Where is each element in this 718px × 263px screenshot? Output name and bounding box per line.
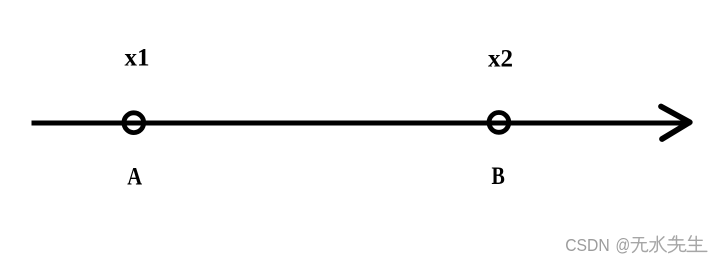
svg-text:x1: x1 [125,45,150,72]
svg-text:B: B [492,162,505,190]
svg-text:@: @ [616,235,631,255]
svg-text:CSDN: CSDN [565,235,610,255]
svg-text:x2: x2 [488,46,513,73]
svg-text:A: A [127,163,142,190]
